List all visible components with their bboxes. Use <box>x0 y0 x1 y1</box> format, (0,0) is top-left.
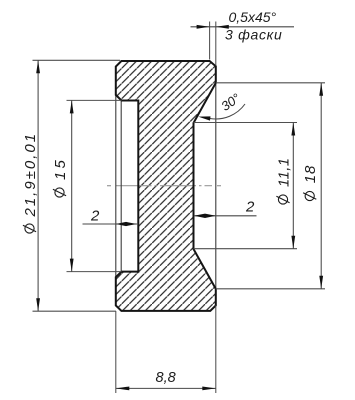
svg-text:0,5x45°: 0,5x45° <box>229 9 277 25</box>
svg-text:2: 2 <box>90 208 100 225</box>
svg-text:15: 15 <box>52 157 69 180</box>
svg-text:18: 18 <box>302 165 319 183</box>
svg-text:3 фаски: 3 фаски <box>225 27 282 43</box>
svg-text:2: 2 <box>245 199 255 216</box>
svg-text:11,1: 11,1 <box>277 157 293 187</box>
svg-text:8,8: 8,8 <box>156 370 176 386</box>
svg-text:21,9±0,01: 21,9±0,01 <box>22 132 39 218</box>
